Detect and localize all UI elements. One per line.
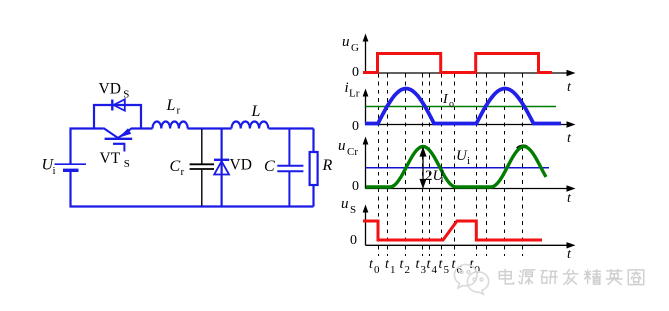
uCr waveform (green) — [366, 147, 546, 188]
svg-text:R: R — [322, 157, 333, 174]
capacitor Cr (black) — [190, 129, 214, 206]
watermark char 精 — [584, 269, 601, 284]
watermark char 源 — [519, 270, 536, 285]
svg-text:G: G — [351, 42, 359, 54]
watermark char 研 — [541, 271, 558, 285]
svg-text:i: i — [467, 155, 470, 167]
svg-text:5: 5 — [444, 264, 450, 276]
svg-text:t: t — [567, 131, 572, 146]
uG waveform (red) — [363, 54, 552, 73]
axis uG panel — [366, 38, 573, 73]
wire: top rail left segment — [71, 129, 104, 164]
svg-text:t: t — [567, 80, 572, 95]
svg-text:u: u — [342, 34, 350, 50]
svg-text:I: I — [442, 92, 449, 107]
watermark char 电 — [499, 269, 513, 284]
watermark text 电源研发精英圈 (hand-drawn glyphs) — [499, 269, 643, 285]
battery Ui — [55, 164, 87, 170]
svg-text:t: t — [567, 191, 572, 206]
svg-text:i: i — [53, 165, 56, 177]
watermark char 英 — [606, 269, 623, 285]
svg-text:t: t — [567, 247, 572, 262]
svg-text:r: r — [177, 105, 181, 117]
black cap over second uCr peak — [517, 146, 527, 149]
Ui level line (blue) — [366, 167, 549, 169]
svg-text:Lr: Lr — [349, 88, 360, 100]
svg-text:VD: VD — [230, 157, 252, 174]
svg-text:L: L — [251, 103, 261, 120]
axis uS panel — [366, 209, 573, 245]
svg-text:C: C — [170, 158, 181, 175]
svg-text:S: S — [350, 204, 356, 216]
svg-text:0: 0 — [352, 119, 359, 134]
svg-text:u: u — [338, 138, 346, 154]
Io level line (green) — [366, 106, 557, 108]
wire: top rail between Lr and L — [188, 127, 232, 129]
diode VD (vertical, points up) — [214, 129, 229, 206]
svg-text:S: S — [124, 158, 130, 170]
diode VDs (points left) — [112, 99, 125, 110]
iLr waveform (blue) — [365, 89, 561, 124]
dashed time grid t0..t3' — [379, 74, 523, 257]
resistor R — [310, 152, 318, 185]
inductor Lr — [153, 121, 188, 128]
svg-text:i: i — [441, 173, 444, 185]
svg-text:4: 4 — [432, 264, 438, 276]
wire: right branch to resistor R — [312, 129, 314, 153]
svg-text:VD: VD — [99, 80, 121, 97]
wire: top rail between L and right corner — [269, 127, 314, 129]
svg-text:0: 0 — [352, 179, 359, 194]
svg-text:1: 1 — [390, 264, 396, 276]
svg-text:Cr: Cr — [347, 146, 358, 158]
svg-text:2: 2 — [405, 264, 411, 276]
2Ui measure arrow — [420, 149, 425, 188]
svg-text:r: r — [181, 166, 185, 178]
svg-text:0: 0 — [352, 65, 359, 80]
watermark char 圈 — [628, 270, 643, 285]
svg-text:0: 0 — [374, 264, 380, 276]
wire: bottom rail — [71, 171, 314, 207]
svg-text:u: u — [341, 196, 349, 212]
inductor L — [232, 121, 269, 128]
svg-text:0: 0 — [350, 233, 357, 248]
svg-text:o: o — [449, 99, 454, 110]
svg-text:VT: VT — [100, 150, 121, 167]
uS waveform (red) — [363, 221, 542, 240]
capacitor C (blue) — [277, 129, 303, 206]
axis uCr panel — [366, 141, 573, 189]
wire: VDs branch risers and top — [94, 105, 141, 129]
svg-text:L: L — [166, 97, 176, 114]
watermark char 发 — [563, 269, 579, 285]
wire: top rail between transistor and Lr — [132, 127, 153, 129]
watermark logo (two chat bubbles) — [454, 265, 488, 295]
transistor VTs (IGBT/GTR symbol) — [103, 128, 132, 152]
axis iLr panel — [366, 93, 573, 125]
svg-text:C: C — [264, 158, 275, 175]
svg-text:S: S — [123, 88, 129, 100]
time labels t0..t6,t0 — [369, 257, 481, 276]
